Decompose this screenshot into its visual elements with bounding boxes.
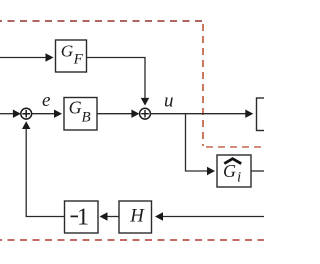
svg-text:F: F [73, 51, 84, 67]
summing junction sum2 [140, 108, 151, 119]
wire -1 back up to sum1 [26, 129, 64, 217]
wire feedback into H [163, 216, 264, 218]
svg-text:i: i [237, 170, 241, 186]
block GB [64, 98, 97, 131]
svg-text:e: e [42, 90, 50, 111]
svg-text:B: B [82, 110, 91, 126]
wire sum2 to right block [150, 113, 245, 115]
svg-text:G: G [223, 161, 236, 181]
summing junction sum1 [21, 108, 32, 119]
wire H to -1 [108, 216, 120, 218]
svg-text:u: u [164, 90, 174, 111]
svg-text:G: G [69, 98, 82, 118]
dashed boundary mid horizontal edge [206, 146, 264, 148]
svg-text:G: G [61, 41, 74, 60]
block G (clipped at right) [257, 98, 277, 131]
wire input to sum1 [0, 113, 13, 115]
wire input to GF [0, 57, 46, 59]
dashed boundary right vertical edge [202, 24, 204, 146]
wire Gi_hat output [251, 170, 264, 172]
block Gi_hat [217, 155, 251, 187]
dashed boundary bottom edge [0, 239, 264, 241]
wire branch from u down to Gi_hat [186, 114, 208, 171]
block -1 [65, 201, 99, 233]
wire GF output to sum2 [87, 58, 145, 99]
block GF [56, 40, 87, 72]
svg-text:1: 1 [77, 204, 89, 230]
block H [119, 201, 152, 233]
wire GB to sum2 [97, 113, 132, 115]
svg-text:H: H [129, 205, 145, 226]
wire sum1 to GB [32, 113, 55, 115]
dashed boundary top edge [0, 20, 202, 22]
